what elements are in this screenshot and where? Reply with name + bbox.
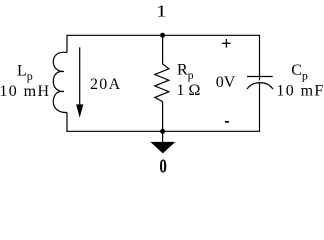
wire right bottom lead (259, 82, 261, 132)
capacitor Cp bottom curved plate (247, 83, 273, 89)
wire middle top lead (162, 35, 164, 64)
svg-text:0: 0 (159, 155, 167, 175)
capacitor Cp top plate (247, 76, 273, 78)
wire left top lead (66, 35, 68, 53)
inductor Lp coil (53, 52, 67, 112)
current arrow shaft (79, 47, 81, 107)
svg-text:20A: 20A (90, 76, 121, 93)
ground symbol triangle (150, 142, 175, 154)
junction dot node 0 (160, 129, 165, 134)
svg-text:10 mH: 10 mH (0, 83, 50, 100)
polarity plus (222, 39, 231, 48)
junction dot node 1 (160, 33, 165, 38)
svg-text:1 Ω: 1 Ω (177, 82, 201, 99)
svg-text:10 mF: 10 mF (276, 83, 324, 100)
wire top (67, 34, 260, 36)
svg-text:Lp: Lp (17, 63, 33, 84)
svg-text:Cp: Cp (291, 62, 308, 83)
polarity minus (225, 121, 229, 123)
svg-text:0V: 0V (216, 74, 236, 91)
current arrow head (76, 104, 83, 117)
wire left bottom lead (66, 113, 68, 132)
ground stub wire (162, 131, 164, 142)
wire bottom (67, 130, 260, 132)
resistor Rp zigzag (155, 64, 169, 102)
wire middle bottom lead (162, 102, 164, 132)
wire right top lead (259, 35, 261, 81)
svg-text:Rp: Rp (177, 61, 194, 82)
svg-text:1: 1 (156, 3, 167, 21)
